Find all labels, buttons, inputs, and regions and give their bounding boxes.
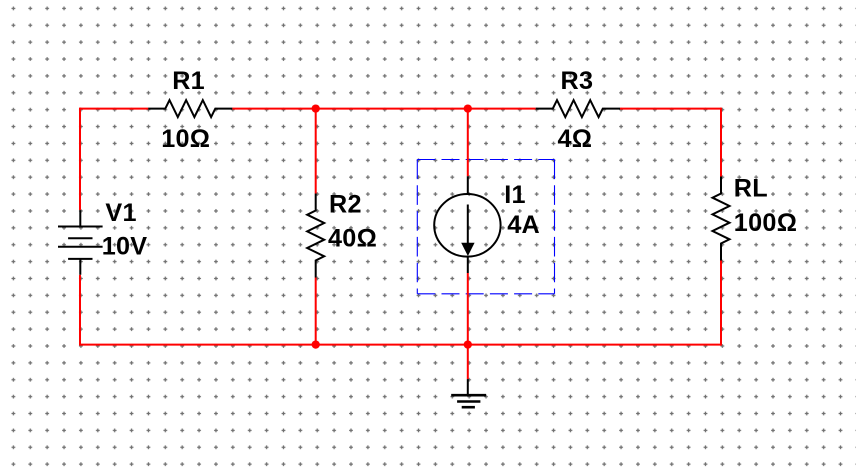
svg-text:RL: RL bbox=[734, 174, 768, 202]
svg-text:V1: V1 bbox=[105, 199, 136, 227]
svg-text:R1: R1 bbox=[172, 67, 205, 95]
svg-text:4A: 4A bbox=[507, 211, 540, 239]
svg-text:10V: 10V bbox=[102, 233, 148, 261]
svg-text:R3: R3 bbox=[561, 67, 594, 95]
svg-text:R2: R2 bbox=[329, 191, 362, 219]
svg-text:10Ω: 10Ω bbox=[161, 125, 210, 153]
svg-text:I1: I1 bbox=[504, 181, 526, 209]
svg-text:40Ω: 40Ω bbox=[328, 224, 377, 252]
svg-text:4Ω: 4Ω bbox=[558, 125, 593, 153]
svg-text:100Ω: 100Ω bbox=[734, 209, 797, 237]
